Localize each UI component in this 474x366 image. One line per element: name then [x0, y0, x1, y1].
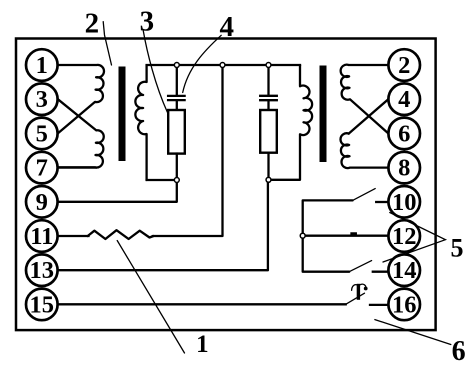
svg-text:8: 8	[398, 155, 410, 182]
svg-text:1: 1	[36, 52, 48, 79]
svg-text:3: 3	[140, 5, 155, 37]
svg-text:12: 12	[392, 223, 417, 250]
svg-text:6: 6	[452, 336, 466, 366]
svg-text:11: 11	[30, 223, 53, 250]
svg-text:1: 1	[196, 331, 209, 358]
svg-text:9: 9	[36, 189, 48, 216]
svg-text:6: 6	[398, 120, 410, 147]
svg-text:16: 16	[392, 291, 417, 318]
svg-text:5: 5	[36, 120, 48, 147]
svg-text:2: 2	[398, 52, 410, 79]
svg-text:13: 13	[30, 257, 55, 284]
svg-text:5: 5	[451, 233, 464, 262]
svg-text:10: 10	[392, 189, 417, 216]
svg-text:4: 4	[398, 86, 410, 113]
svg-text:2: 2	[85, 7, 100, 39]
svg-text:15: 15	[30, 291, 55, 318]
svg-text:14: 14	[392, 257, 417, 284]
svg-text:7: 7	[36, 155, 48, 182]
svg-text:3: 3	[36, 86, 48, 113]
svg-text:4: 4	[219, 11, 234, 43]
